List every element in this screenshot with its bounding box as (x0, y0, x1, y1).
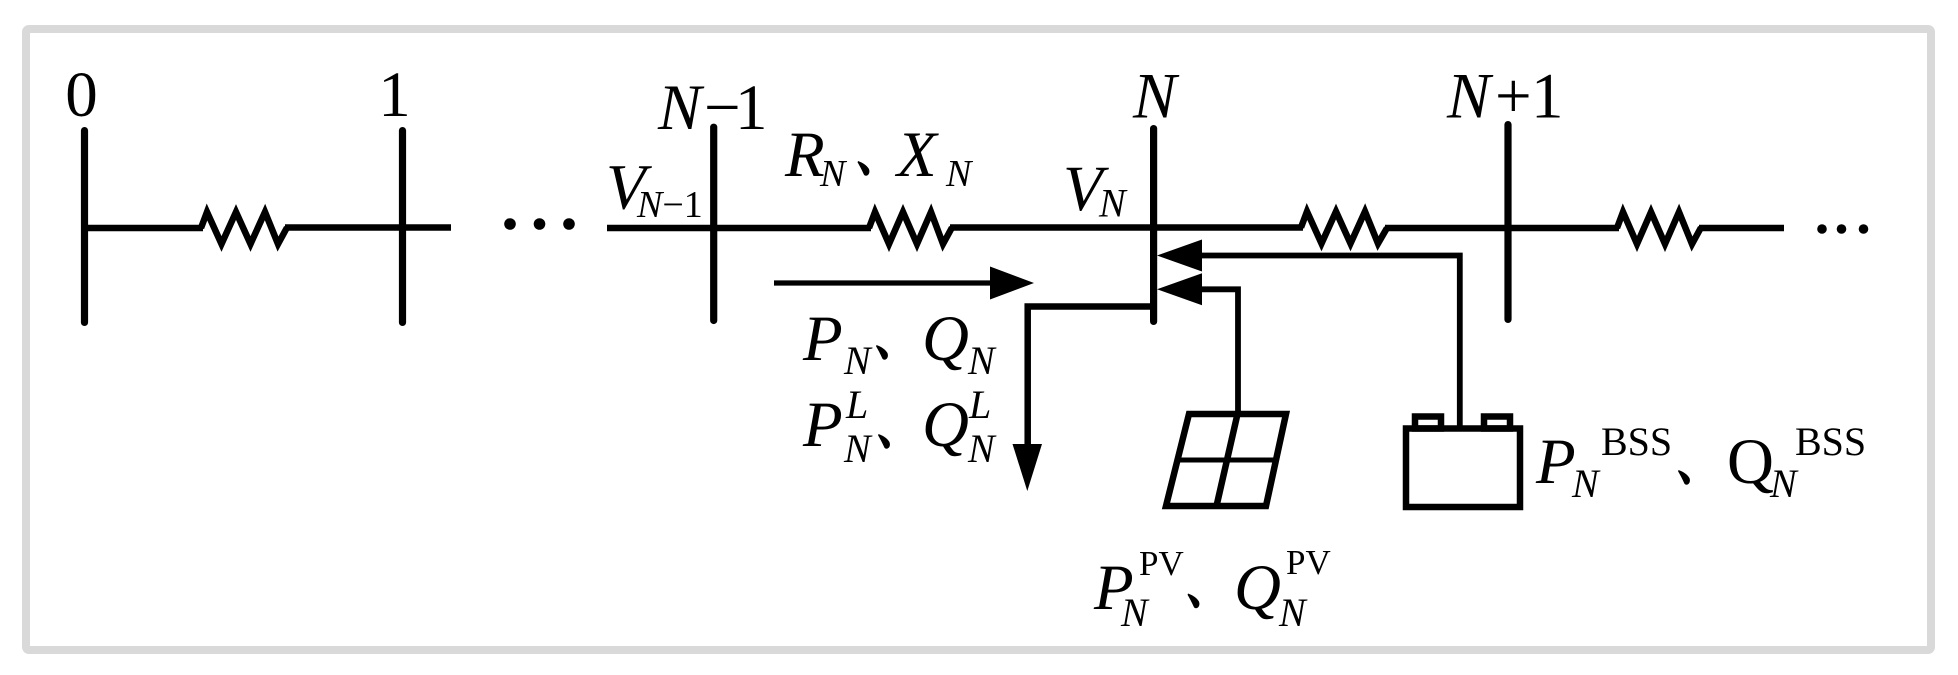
wire R1 to past bus 1 (285, 224, 451, 231)
svg-text:N: N (967, 338, 997, 383)
battery BSS (1406, 417, 1520, 508)
svg-text:Q: Q (1727, 426, 1774, 498)
bus N (1150, 129, 1157, 322)
dots left ellipsis (504, 218, 516, 230)
svg-text:L: L (968, 382, 991, 427)
svg-text:N: N (1098, 181, 1128, 226)
svg-text:P: P (1535, 426, 1576, 498)
svg-text:X: X (894, 119, 939, 191)
svg-text:Q: Q (922, 303, 969, 375)
resistor R1 (bus 0 - bus 1) (201, 212, 287, 244)
load tap wire (1028, 307, 1157, 447)
wire R3 to past bus N+1 to R4 (1385, 225, 1619, 232)
bus 1 (399, 131, 406, 323)
svg-text:Q: Q (1234, 552, 1281, 624)
svg-text:N: N (843, 338, 873, 383)
dots right ellipsis (1817, 224, 1827, 234)
svg-text:P: P (802, 303, 843, 375)
bus N+1 (1504, 125, 1511, 320)
svg-text:N: N (1769, 461, 1799, 506)
svg-text:Q: Q (922, 389, 969, 461)
svg-text:L: L (845, 382, 868, 427)
svg-text:N−1: N−1 (636, 184, 703, 226)
svg-text:BSS: BSS (1601, 419, 1672, 464)
svg-text:N+1: N+1 (1446, 61, 1564, 133)
wire RN to bus N to R3 (950, 224, 1303, 231)
svg-text:BSS: BSS (1795, 419, 1866, 464)
svg-text:P: P (802, 389, 843, 461)
svg-text:N: N (819, 153, 848, 195)
svg-text:0: 0 (65, 59, 98, 131)
svg-text:N: N (1120, 590, 1150, 635)
comma after PNL (878, 434, 890, 449)
svg-text:N: N (1571, 461, 1601, 506)
svg-text:PV: PV (1286, 543, 1331, 582)
wire R4 to right end (1699, 225, 1784, 232)
wire to bus N-1 and on to RN (607, 225, 871, 232)
svg-text:N: N (967, 426, 997, 471)
svg-text:N: N (945, 153, 974, 195)
BSS feed wire with arrow into bus N (1157, 240, 1460, 428)
comma after RN (858, 161, 870, 176)
comma after PN (876, 345, 888, 360)
svg-text:N: N (1132, 61, 1180, 133)
PV panel U-PV (1166, 414, 1286, 506)
comma in PV label (1188, 594, 1200, 609)
wire bus0 to R1 (85, 225, 204, 232)
PV feed wire with arrow into bus N (1157, 273, 1238, 416)
bus 0 (81, 131, 88, 323)
comma in BSS label (1678, 470, 1690, 485)
svg-text:PV: PV (1139, 544, 1184, 583)
resistor RN (869, 212, 952, 244)
svg-text:1: 1 (378, 59, 411, 131)
load arrow head (1013, 444, 1043, 491)
resistor R (N to N+1) (1301, 212, 1387, 244)
bus N-1 (710, 127, 717, 320)
power flow arrow PN QN (774, 267, 1034, 300)
svg-text:N: N (843, 426, 873, 471)
svg-text:N: N (1278, 590, 1308, 635)
svg-text:N−1: N−1 (657, 72, 768, 144)
svg-text:R: R (784, 119, 825, 191)
resistor R4 (right of N+1) (1617, 212, 1701, 244)
